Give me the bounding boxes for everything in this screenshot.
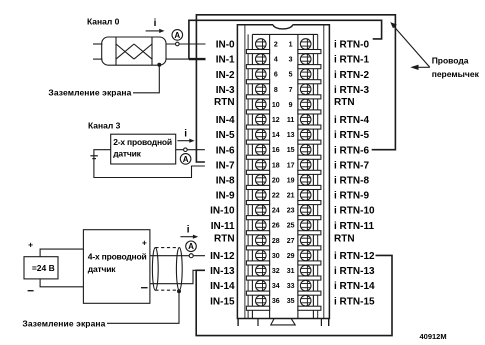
svg-text:i RTN-15: i RTN-15 (334, 296, 375, 307)
test point node (channel 3) (184, 148, 188, 152)
terminal block top notch (273, 25, 293, 29)
svg-text:29: 29 (287, 253, 295, 260)
arrow to side jumpers (410, 65, 430, 70)
svg-text:Канал 3: Канал 3 (88, 120, 121, 130)
svg-text:34: 34 (272, 283, 280, 290)
svg-text:23: 23 (287, 208, 295, 215)
terminal row RTN / pins 10,9 (214, 97, 355, 114)
terminal block feet (238, 319, 329, 327)
svg-text:26: 26 (272, 223, 280, 230)
wire: IN-0 lead (166, 43, 206, 45)
current arrow i (channel 3) (177, 128, 194, 142)
svg-text:RTN: RTN (334, 97, 355, 108)
terminal row IN-2 / pins 6,5 (216, 69, 370, 84)
label: Провода перемычек (432, 56, 480, 80)
svg-text:i: i (187, 225, 190, 236)
shield drain dot (channel 12) (177, 289, 181, 293)
svg-text:i RTN-14: i RTN-14 (334, 281, 375, 292)
wire: jumper junction into IN-1 (thick) (189, 58, 206, 60)
svg-text:20: 20 (272, 177, 280, 184)
svg-text:4-х проводной: 4-х проводной (88, 251, 147, 261)
wire: IN-1 lead (166, 58, 206, 60)
terminal row IN-1 / pins 4,3 (216, 54, 370, 69)
terminal row IN-11 / pins 26,25 (211, 220, 375, 235)
shielded cable (channel 12) (152, 248, 182, 291)
4-wire sensor box (83, 230, 149, 304)
svg-text:i RTN-6: i RTN-6 (334, 145, 369, 156)
svg-text:14: 14 (272, 132, 280, 139)
wire: shield drain to ground label (channel 12) (107, 291, 179, 323)
svg-text:IN-11: IN-11 (211, 221, 235, 232)
svg-text:A: A (183, 155, 189, 164)
svg-text:=24 В: =24 В (32, 263, 55, 273)
wire: shield drain to ground label (channel 0) (133, 65, 159, 93)
terminal block bottom tab (271, 319, 295, 325)
wire: sensor to ground (channel 3) (94, 150, 205, 178)
svg-text:i: i (154, 18, 157, 29)
ground symbol (channel 3) (90, 156, 98, 159)
terminal strip columns (252, 34, 317, 318)
svg-text:RTN: RTN (214, 234, 235, 245)
svg-text:4: 4 (274, 57, 278, 64)
svg-text:i RTN-3: i RTN-3 (334, 85, 369, 96)
svg-text:перемычек: перемычек (432, 69, 480, 79)
svg-text:IN-13: IN-13 (210, 266, 235, 277)
terminal row IN-15 / pins 36,35 (210, 295, 375, 310)
test point node (channel 0) (176, 42, 180, 46)
jumper wire: i RTN-12 to IN-13 (196, 255, 392, 335)
terminal row IN-5 / pins 14,13 (216, 129, 370, 144)
svg-text:IN-9: IN-9 (216, 191, 235, 202)
svg-text:15: 15 (287, 147, 295, 154)
svg-text:33: 33 (287, 283, 295, 290)
svg-text:17: 17 (287, 162, 295, 169)
svg-text:28: 28 (272, 238, 280, 245)
current arrow i (channel 0) (146, 18, 165, 33)
arrow to top jumper corner (390, 22, 430, 67)
svg-text:Провода: Провода (432, 56, 469, 66)
svg-text:IN-14: IN-14 (210, 281, 235, 292)
svg-text:IN-6: IN-6 (216, 145, 235, 156)
svg-text:13: 13 (287, 132, 295, 139)
terminal row IN-9 / pins 22,21 (216, 190, 370, 205)
svg-text:RTN: RTN (214, 97, 235, 108)
terminal row IN-6 / pins 16,15 (216, 144, 370, 159)
svg-text:i RTN-2: i RTN-2 (334, 70, 369, 81)
wire: supply + to sensor (40, 249, 83, 257)
svg-text:i RTN-10: i RTN-10 (334, 206, 375, 217)
current arrow i (channel 12) (180, 225, 198, 239)
svg-text:датчик: датчик (113, 148, 141, 158)
svg-text:IN-8: IN-8 (216, 176, 235, 187)
svg-text:RTN: RTN (334, 234, 355, 245)
svg-text:i RTN-12: i RTN-12 (334, 251, 375, 262)
svg-text:A: A (174, 31, 180, 40)
svg-text:i RTN-5: i RTN-5 (334, 130, 369, 141)
test point node (channel 12) (189, 254, 193, 258)
svg-text:36: 36 (272, 298, 280, 305)
ammeter A (channel 3) (180, 154, 191, 165)
label: − (supply) (28, 290, 34, 292)
wire: supply − to sensor (40, 279, 83, 287)
svg-text:24: 24 (272, 208, 280, 215)
terminal row IN-12 / pins 30,29 (210, 250, 375, 265)
wire: sensor − to IN-13 (150, 270, 205, 283)
svg-text:40912M: 40912M (420, 332, 447, 341)
svg-text:i RTN-4: i RTN-4 (334, 115, 369, 126)
svg-text:i RTN-1: i RTN-1 (334, 55, 369, 66)
svg-text:+: + (28, 239, 33, 249)
svg-text:A: A (188, 242, 194, 251)
svg-text:1: 1 (289, 42, 293, 49)
svg-text:Канал 0: Канал 0 (87, 16, 120, 26)
terminal row RTN / pins 28,27 (214, 234, 355, 250)
svg-text:IN-2: IN-2 (216, 70, 235, 81)
svg-text:27: 27 (287, 238, 295, 245)
svg-text:7: 7 (289, 87, 293, 94)
svg-text:5: 5 (289, 72, 293, 79)
ammeter A (channel 0) (172, 30, 183, 41)
svg-text:12: 12 (272, 117, 280, 124)
svg-text:25: 25 (287, 223, 295, 230)
svg-text:19: 19 (287, 177, 295, 184)
svg-text:IN-4: IN-4 (216, 115, 235, 126)
svg-text:датчик: датчик (88, 264, 116, 274)
terminal block outline (237, 25, 329, 319)
svg-text:i RTN-11: i RTN-11 (334, 221, 374, 232)
svg-text:IN-15: IN-15 (210, 296, 235, 307)
svg-text:IN-10: IN-10 (210, 206, 235, 217)
svg-text:IN-0: IN-0 (216, 40, 235, 51)
terminal row IN-4 / pins 12,11 (216, 114, 370, 129)
jumper wire: i RTN-6 to IN-7 (196, 15, 395, 162)
svg-text:Заземление экрана: Заземление экрана (22, 318, 105, 328)
terminal row IN-8 / pins 20,19 (216, 175, 370, 190)
terminal row IN-0 / pins 2,1 (216, 39, 370, 54)
svg-text:16: 16 (272, 147, 280, 154)
svg-text:+: + (142, 238, 147, 248)
terminal row IN-14 / pins 34,33 (210, 280, 375, 295)
svg-text:32: 32 (272, 268, 280, 275)
svg-text:IN-1: IN-1 (216, 55, 235, 66)
terminal row IN-3 / pins 8,7 (216, 84, 370, 99)
wire: cable left leads (93, 43, 103, 45)
svg-text:6: 6 (274, 72, 278, 79)
svg-text:31: 31 (287, 268, 295, 275)
jumper wire: i RTN-0 to IN-1 (189, 20, 382, 59)
svg-text:18: 18 (272, 162, 280, 169)
svg-text:22: 22 (272, 193, 280, 200)
shield drain dot (channel 0) (157, 63, 161, 67)
ammeter A (channel 12) (186, 241, 197, 252)
wire: sensor + to IN-12 (150, 255, 205, 257)
svg-text:IN-3: IN-3 (216, 85, 235, 96)
wire: IN-6 lead (channel 3) (176, 149, 205, 151)
svg-text:2: 2 (274, 42, 278, 49)
svg-text:i RTN-13: i RTN-13 (334, 266, 375, 277)
svg-text:IN-5: IN-5 (216, 130, 235, 141)
terminal row IN-10 / pins 24,23 (210, 205, 375, 220)
svg-text:i RTN-7: i RTN-7 (334, 160, 369, 171)
terminal block inner rails (245, 25, 324, 319)
svg-text:IN-12: IN-12 (210, 251, 235, 262)
svg-text:35: 35 (287, 298, 295, 305)
svg-text:2-х проводной: 2-х проводной (113, 137, 172, 147)
twisted-pair cable (channel 0) (102, 37, 166, 65)
terminal row IN-7 / pins 18,17 (216, 160, 370, 175)
svg-text:Заземление экрана: Заземление экрана (48, 88, 131, 98)
svg-text:i RTN-8: i RTN-8 (334, 176, 369, 187)
svg-text:11: 11 (287, 117, 295, 124)
svg-text:21: 21 (287, 193, 295, 200)
svg-text:9: 9 (289, 102, 293, 109)
svg-text:i: i (184, 128, 187, 139)
svg-text:i RTN-0: i RTN-0 (334, 40, 369, 51)
24V supply box (24, 257, 58, 279)
svg-text:i RTN-9: i RTN-9 (334, 191, 369, 202)
svg-text:10: 10 (272, 102, 280, 109)
svg-text:8: 8 (274, 87, 278, 94)
svg-text:IN-7: IN-7 (216, 160, 235, 171)
svg-text:30: 30 (272, 253, 280, 260)
svg-text:3: 3 (289, 57, 293, 64)
terminal row IN-13 / pins 32,31 (210, 265, 375, 280)
2-wire sensor box (111, 134, 176, 164)
